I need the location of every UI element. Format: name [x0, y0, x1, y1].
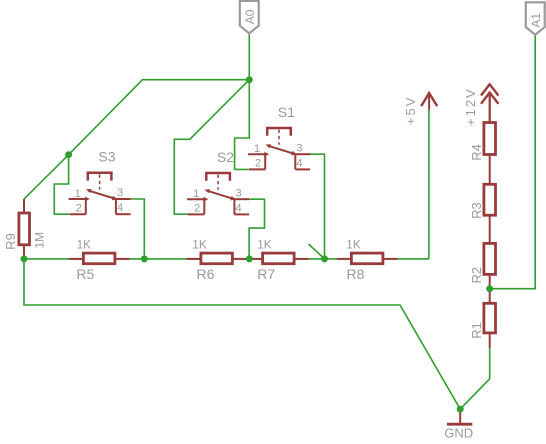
- svg-text:R1: R1: [469, 322, 484, 339]
- svg-text:2: 2: [194, 203, 200, 215]
- svg-text:2: 2: [255, 158, 261, 170]
- svg-text:1K: 1K: [346, 237, 361, 251]
- svg-text:1M: 1M: [33, 232, 47, 249]
- svg-text:R9: R9: [3, 233, 18, 250]
- svg-text:4: 4: [117, 202, 123, 214]
- svg-text:R3: R3: [469, 202, 484, 219]
- svg-text:A0: A0: [243, 9, 257, 24]
- svg-text:3: 3: [296, 142, 302, 154]
- svg-text:R6: R6: [197, 266, 215, 282]
- svg-text:2: 2: [76, 202, 82, 214]
- svg-text:GND: GND: [444, 425, 473, 440]
- svg-text:R5: R5: [76, 266, 94, 282]
- svg-text:4: 4: [236, 202, 242, 214]
- svg-text:+5V: +5V: [403, 96, 418, 126]
- svg-text:1: 1: [75, 188, 81, 200]
- svg-text:+12V: +12V: [463, 87, 478, 126]
- svg-text:R2: R2: [469, 267, 484, 284]
- svg-text:3: 3: [236, 187, 242, 199]
- svg-text:1: 1: [193, 188, 199, 200]
- svg-text:1K: 1K: [192, 237, 207, 251]
- svg-text:S2: S2: [217, 149, 234, 165]
- svg-text:1K: 1K: [257, 237, 272, 251]
- svg-text:1K: 1K: [77, 237, 92, 251]
- svg-text:R8: R8: [347, 266, 365, 282]
- svg-text:R4: R4: [469, 144, 484, 161]
- svg-text:1: 1: [254, 143, 260, 155]
- svg-text:3: 3: [117, 187, 123, 199]
- svg-text:S3: S3: [98, 149, 115, 165]
- svg-text:A1: A1: [529, 13, 543, 28]
- svg-text:R7: R7: [257, 266, 275, 282]
- svg-text:S1: S1: [278, 104, 295, 120]
- svg-text:4: 4: [296, 157, 302, 169]
